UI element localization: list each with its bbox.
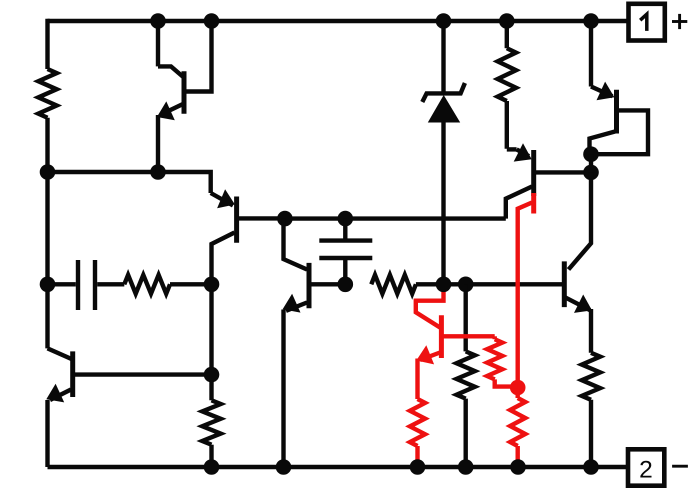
node rail-B / C2 junction — [338, 211, 354, 227]
resistor R8 — [510, 398, 525, 446]
wire R7 bottom — [415, 446, 419, 467]
wire rail B — [285, 216, 506, 220]
wire R3 to mid column — [170, 282, 212, 286]
node bottom rail / R8 — [510, 459, 526, 475]
transistor Q4 — [283, 219, 346, 467]
transistor Q5 red collector — [518, 193, 534, 388]
resistor R3 — [124, 275, 170, 294]
transistor Q7 — [590, 21, 649, 154]
transistor Q6 — [564, 172, 592, 352]
wire R2 bottom — [505, 101, 509, 149]
wire rail A (left horizontal) — [48, 172, 211, 193]
resistor R7 — [410, 399, 425, 446]
resistor R2 — [498, 48, 516, 101]
plus sign — [672, 14, 687, 29]
wire R9 top — [493, 336, 497, 339]
node Q3 lead / mid column junction — [204, 367, 220, 383]
wire left column lower — [45, 284, 49, 348]
node mid column / rail C junction — [204, 277, 220, 293]
capacitor C1 — [48, 260, 125, 310]
resistor R9 — [487, 339, 502, 379]
wire R5 to bottom rail — [209, 445, 213, 467]
wire R6 bottom — [464, 399, 468, 467]
wire R10 bottom — [589, 400, 593, 467]
transistor Q8 — [416, 284, 495, 399]
wire R9 bottom to red node — [495, 379, 518, 386]
resistor R6 — [457, 351, 475, 398]
node Q7 emitter at top rail — [583, 13, 599, 29]
wire top rail — [48, 19, 629, 23]
node zener cathode at top rail — [436, 13, 452, 29]
node bottom rail / R7 — [410, 459, 426, 475]
node zener anode junction — [436, 277, 452, 293]
wire left column upper — [45, 19, 49, 69]
resistor R1 — [38, 69, 56, 118]
node bottom rail / Q4 emitter — [276, 459, 292, 475]
capacitor C2 — [319, 219, 372, 285]
node rail-A / Q1 emitter junction — [150, 164, 166, 180]
wire R2 top — [505, 21, 509, 48]
node bottom rail / R10 — [583, 459, 599, 475]
node R2 at top rail — [499, 13, 515, 29]
node bottom rail / Q2 collector — [204, 459, 220, 475]
wire R6 top — [464, 284, 468, 351]
terminal 2 — [628, 449, 664, 485]
transistor Q1 — [157, 21, 212, 172]
node Q1 base at top rail — [204, 13, 220, 29]
wire left column mid — [45, 118, 49, 285]
node red collector junction — [510, 380, 526, 396]
terminal 1 — [629, 4, 665, 41]
transistor Q3 — [46, 348, 211, 467]
node Q7 base-collector junction — [583, 146, 599, 162]
node rail-B / Q2 base junction — [277, 211, 293, 227]
resistor R5 — [202, 400, 220, 444]
transistor Q5 — [506, 143, 591, 218]
node C1 left junction — [40, 277, 56, 293]
wire R8 bottom — [516, 446, 520, 467]
wire rail C right section — [444, 282, 563, 286]
node Q5 base / Q6 collector junction — [583, 165, 599, 181]
transistor Q2 — [211, 189, 285, 400]
resistor R10 — [582, 353, 600, 400]
node Q1 collector at top rail — [150, 13, 166, 29]
zener diode D1 — [422, 21, 465, 284]
svg-text:2: 2 — [639, 457, 653, 484]
wire R4 to zener column — [416, 282, 444, 286]
wire bottom rail — [48, 465, 629, 469]
node R6 top junction — [458, 277, 474, 293]
minus sign — [672, 465, 688, 468]
wire link between right nodes — [589, 154, 593, 172]
wire R8 top — [516, 388, 520, 399]
node rail-A / left column junction — [40, 164, 56, 180]
node bottom rail / R6 — [458, 459, 474, 475]
node C2 bottom / rail C junction — [338, 277, 354, 293]
resistor R4 — [371, 275, 416, 294]
